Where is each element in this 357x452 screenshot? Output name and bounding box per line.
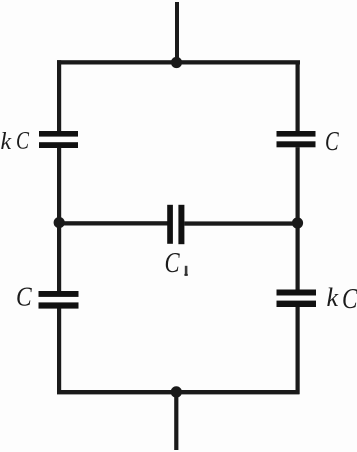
node middle-right junction	[292, 217, 303, 228]
wire right vertical middle segment	[296, 147, 300, 290]
wire middle horizontal right part	[184, 221, 299, 225]
wire top lead	[175, 2, 179, 63]
svg-text:C: C	[342, 283, 357, 315]
wire left vertical middle segment	[57, 148, 61, 292]
wire right vertical lower segment	[296, 307, 300, 394]
wire bottom lead	[174, 392, 178, 450]
svg-text:k: k	[327, 283, 339, 312]
capacitor C5 (kC bottom-right) plates	[277, 290, 317, 308]
wire middle horizontal left part	[57, 221, 168, 225]
svg-text:k: k	[1, 129, 12, 155]
capacitor C2 (kC top-left) plates	[39, 131, 78, 148]
capacitor C3 (C top-right) plates	[277, 131, 316, 147]
label C1	[165, 246, 188, 278]
wire left vertical upper segment	[57, 60, 61, 132]
svg-text:C: C	[165, 246, 181, 278]
wire right vertical upper segment	[296, 61, 300, 132]
node middle-left junction	[54, 217, 65, 228]
svg-text:C: C	[325, 127, 340, 156]
wire bottom horizontal	[57, 390, 300, 394]
capacitor C1 plates (vertical)	[167, 205, 184, 244]
node bottom junction	[171, 386, 182, 397]
label kC top-left	[1, 126, 30, 155]
svg-text:C: C	[16, 282, 33, 312]
node top junction	[171, 57, 182, 68]
label kC bottom-right	[327, 283, 357, 315]
svg-text:C: C	[16, 126, 30, 154]
wire top horizontal	[57, 60, 300, 64]
wire left vertical lower segment	[57, 309, 61, 395]
capacitor C4 (C bottom-left) plates	[39, 291, 79, 309]
